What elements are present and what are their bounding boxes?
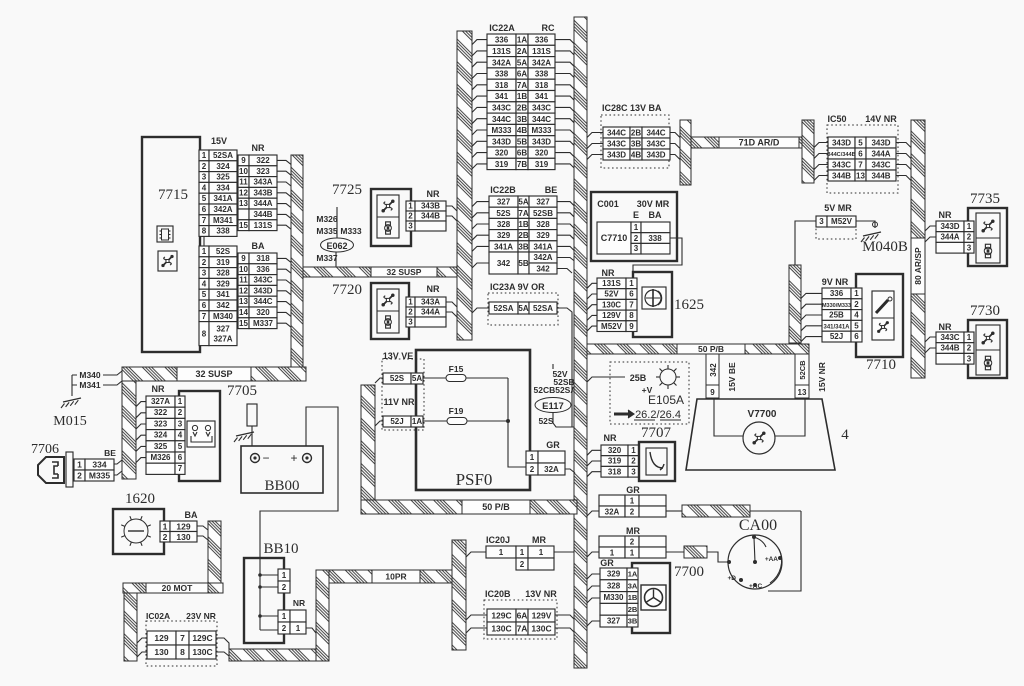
svg-text:341: 341	[216, 290, 230, 299]
svg-text:342A: 342A	[533, 253, 552, 262]
svg-text:343C: 343C	[940, 333, 959, 342]
svg-text:2: 2	[530, 465, 535, 474]
svg-text:10: 10	[239, 265, 248, 274]
svg-text:8: 8	[202, 227, 207, 236]
svg-text:2B: 2B	[518, 231, 528, 240]
connector 1620 table	[160, 521, 170, 532]
svg-text:M340: M340	[79, 370, 101, 380]
svg-text:20 MOT: 20 MOT	[162, 583, 194, 593]
connector MR table	[599, 536, 625, 547]
svg-text:1: 1	[163, 521, 168, 531]
svg-text:M337: M337	[253, 319, 274, 328]
svg-text:329: 329	[607, 570, 621, 579]
svg-text:M52V: M52V	[831, 217, 853, 226]
svg-text:E062: E062	[326, 241, 347, 251]
harness bar B7	[208, 521, 221, 583]
svg-text:2: 2	[282, 583, 287, 592]
junction dot F19	[506, 419, 510, 423]
wires 7705 to bar	[136, 402, 146, 407]
svg-text:NR: NR	[152, 384, 165, 394]
motor 7735 box	[968, 208, 1007, 266]
svg-text:328: 328	[607, 581, 621, 590]
svg-text:342A: 342A	[532, 58, 551, 67]
svg-text:3: 3	[408, 222, 413, 231]
svg-text:324: 324	[154, 431, 168, 440]
svg-text:2B: 2B	[631, 129, 641, 138]
svg-text:7700: 7700	[674, 564, 704, 580]
wires 7700	[587, 574, 600, 579]
svg-text:2: 2	[178, 408, 183, 417]
svg-text:6: 6	[178, 453, 183, 462]
svg-text:129: 129	[176, 521, 190, 531]
svg-text:6: 6	[202, 301, 207, 310]
relay 7710 box	[856, 274, 903, 357]
svg-text:319: 319	[535, 160, 549, 169]
svg-text:130: 130	[154, 647, 168, 657]
svg-text:4B: 4B	[517, 126, 527, 135]
wire IC23A left	[472, 308, 489, 313]
svg-text:4: 4	[841, 427, 849, 443]
svg-text:343B: 343B	[421, 202, 440, 211]
svg-text:2: 2	[630, 538, 635, 547]
svg-text:341A: 341A	[213, 194, 232, 203]
svg-text:IC22A: IC22A	[489, 23, 515, 33]
svg-text:5: 5	[178, 442, 183, 451]
svg-text:52SA: 52SA	[493, 304, 513, 313]
wires 1625 to bus	[587, 283, 597, 288]
connector 7706 table	[74, 459, 85, 470]
BB10 internal wire	[259, 513, 261, 630]
svg-text:52V: 52V	[604, 290, 619, 299]
BB10 pin cells lower	[278, 610, 290, 622]
svg-text:3: 3	[202, 173, 207, 182]
svg-text:343D: 343D	[940, 222, 959, 231]
svg-text:1: 1	[630, 549, 635, 558]
svg-text:23V NR: 23V NR	[186, 611, 216, 621]
PSF0 dotted box	[382, 359, 424, 430]
svg-text:NR: NR	[293, 598, 305, 608]
wires IC28C left	[587, 133, 603, 138]
connector 7710 table	[822, 288, 851, 299]
svg-text:26.2/26.4: 26.2/26.4	[635, 409, 681, 421]
svg-text:343B: 343B	[253, 188, 272, 197]
relay 7705 icon	[187, 421, 215, 447]
svg-text:IC50: IC50	[827, 114, 846, 124]
svg-text:M52V: M52V	[601, 322, 623, 331]
svg-text:5: 5	[202, 290, 207, 299]
svg-text:7706: 7706	[31, 442, 59, 457]
svg-text:M333: M333	[531, 126, 552, 135]
svg-text:NR: NR	[602, 268, 615, 278]
svg-text:32 SUSP: 32 SUSP	[387, 267, 422, 277]
svg-text:1: 1	[634, 223, 639, 232]
svg-text:2: 2	[408, 212, 413, 221]
svg-text:1: 1	[77, 460, 82, 470]
harness bar B1 vertical	[291, 155, 303, 367]
connector IC50 dotted box	[827, 125, 898, 193]
connector 7715 pins 9-15 lower table	[238, 253, 249, 264]
svg-text:1B: 1B	[628, 593, 638, 602]
svg-text:3B: 3B	[518, 242, 528, 251]
svg-text:334: 334	[216, 183, 230, 192]
svg-text:11: 11	[239, 178, 248, 187]
svg-text:1: 1	[282, 571, 287, 580]
wire M340 to bar	[103, 371, 122, 375]
svg-text:2: 2	[854, 300, 859, 309]
svg-text:329: 329	[497, 231, 511, 240]
relay 1625 box	[633, 272, 672, 337]
sensor 7707 box	[639, 442, 675, 481]
svg-text:1: 1	[520, 548, 525, 557]
svg-text:6: 6	[858, 150, 863, 159]
svg-text:342: 342	[709, 363, 718, 377]
svg-text:4B: 4B	[631, 151, 641, 160]
svg-text:M040B: M040B	[862, 239, 908, 255]
svg-text:1A: 1A	[517, 36, 527, 45]
motor 7730 box	[968, 320, 1007, 378]
svg-text:130: 130	[176, 532, 190, 542]
ground M040B	[863, 232, 881, 236]
7725 icon	[377, 195, 399, 238]
svg-text:1: 1	[539, 548, 544, 557]
svg-text:2B: 2B	[517, 103, 527, 112]
svg-text:327: 327	[607, 617, 621, 626]
connector IC20J table	[486, 546, 516, 558]
svg-text:7B: 7B	[517, 160, 527, 169]
svg-text:320: 320	[256, 308, 270, 317]
7715 icon motor	[158, 251, 177, 271]
svg-text:344A: 344A	[940, 233, 959, 242]
svg-text:344B: 344B	[871, 172, 890, 181]
harness H6 bottom	[229, 649, 316, 661]
connector 7720 table	[406, 297, 415, 307]
svg-text:344B: 344B	[940, 344, 959, 353]
svg-text:328: 328	[536, 220, 550, 229]
svg-text:1620: 1620	[125, 491, 155, 507]
svg-text:52SA: 52SA	[213, 151, 233, 160]
svg-text:2A: 2A	[517, 47, 527, 56]
svg-text:F15: F15	[449, 364, 464, 374]
harness bus B3 central	[574, 17, 587, 668]
7715 icon IC	[157, 226, 173, 242]
svg-text:338: 338	[216, 227, 230, 236]
connector 7735 table	[936, 221, 964, 232]
wire M52V to ground	[856, 221, 875, 228]
svg-text:E105A: E105A	[648, 393, 684, 407]
svg-text:M326: M326	[316, 214, 338, 224]
harness bar B11	[802, 120, 814, 183]
harness 10PR	[329, 570, 452, 583]
wire M341 to bar	[103, 381, 122, 385]
svg-text:343A: 343A	[421, 298, 440, 307]
svg-text:323: 323	[256, 167, 270, 176]
svg-text:10PR: 10PR	[385, 572, 406, 582]
svg-text:M330: M330	[603, 593, 624, 602]
svg-text:C7710: C7710	[601, 233, 628, 243]
motor 7725 box	[371, 189, 411, 246]
svg-text:GR: GR	[626, 485, 640, 495]
wires IC20B left	[466, 615, 487, 620]
battery plus wire loop	[260, 407, 338, 513]
connector tag 342	[706, 354, 719, 385]
svg-text:343C: 343C	[832, 161, 851, 170]
svg-text:80 AR/SP: 80 AR/SP	[913, 247, 923, 285]
svg-text:−: −	[262, 451, 269, 465]
svg-text:1: 1	[629, 279, 634, 288]
svg-text:129V: 129V	[532, 611, 552, 621]
svg-text:15V NR: 15V NR	[817, 362, 827, 392]
svg-text:M330/M333: M330/M333	[822, 303, 851, 309]
svg-text:3: 3	[634, 244, 639, 253]
svg-text:344C: 344C	[646, 129, 665, 138]
connector 7715 outline	[142, 137, 200, 352]
svg-text:341: 341	[535, 92, 549, 101]
svg-text:7: 7	[202, 216, 207, 225]
svg-text:319: 319	[216, 258, 230, 267]
wire IC23A to E117	[557, 308, 572, 427]
wire GR2 left	[587, 511, 599, 516]
harness bar B0 vertical	[122, 381, 136, 479]
wires 7730	[925, 337, 936, 342]
svg-text:129V: 129V	[602, 311, 621, 320]
svg-text:4: 4	[854, 311, 859, 320]
battery BB00	[241, 446, 323, 493]
svg-text:7: 7	[202, 312, 207, 321]
svg-text:1: 1	[967, 333, 972, 342]
svg-text:+AA: +AA	[765, 556, 778, 563]
svg-text:M337: M337	[316, 253, 338, 263]
wire 342 right	[557, 269, 572, 274]
svg-text:13: 13	[856, 172, 865, 181]
control unit C001 box	[591, 192, 677, 261]
svg-text:342: 342	[216, 301, 230, 310]
svg-text:25B: 25B	[829, 311, 844, 320]
svg-text:1: 1	[499, 548, 504, 557]
harness 50 P/B upper	[587, 344, 809, 354]
wire labels left	[72, 375, 77, 396]
connector 7715 pins 1-8 table	[199, 150, 209, 161]
svg-text:328: 328	[216, 269, 230, 278]
svg-text:BA: BA	[649, 210, 662, 220]
svg-text:327: 327	[216, 325, 230, 334]
svg-text:3: 3	[631, 467, 636, 476]
svg-text:334: 334	[92, 460, 106, 470]
svg-text:1: 1	[202, 247, 207, 256]
svg-text:32A: 32A	[544, 465, 559, 474]
svg-text:130C: 130C	[192, 647, 212, 657]
svg-text:328: 328	[497, 220, 511, 229]
svg-text:2: 2	[630, 508, 635, 517]
svg-text:131S: 131S	[492, 47, 511, 56]
svg-text:2: 2	[202, 258, 207, 267]
svg-text:52S: 52S	[538, 416, 553, 426]
connector 1625 table	[597, 278, 626, 289]
wires IC50 right	[896, 143, 911, 148]
svg-text:344C: 344C	[532, 115, 551, 124]
svg-text:1: 1	[854, 289, 859, 298]
svg-text:329: 329	[216, 279, 230, 288]
svg-text:3: 3	[202, 269, 207, 278]
svg-text:318: 318	[256, 254, 270, 263]
harness bus B4 80 AR/SP	[911, 120, 925, 238]
svg-text:E117: E117	[542, 401, 564, 412]
svg-text:C001: C001	[597, 199, 619, 209]
svg-text:MR: MR	[532, 535, 546, 545]
svg-text:130C: 130C	[531, 624, 551, 634]
svg-text:7A: 7A	[517, 81, 527, 90]
svg-text:6: 6	[854, 332, 859, 341]
svg-text:15: 15	[239, 319, 248, 328]
relay 7705 outline	[179, 391, 220, 481]
svg-text:320: 320	[535, 149, 549, 158]
connector IC02A dotted box	[146, 621, 217, 666]
connector 7700 table	[600, 568, 627, 580]
svg-text:343C: 343C	[492, 103, 511, 112]
svg-text:NR: NR	[427, 284, 440, 294]
wire M52V to B5	[795, 221, 816, 265]
svg-text:2: 2	[408, 308, 413, 317]
svg-text:344C/344B: 344C/344B	[827, 152, 855, 158]
fuse F19	[423, 420, 447, 422]
connector 7730 table	[936, 332, 964, 343]
connector 7706 symbol	[38, 457, 64, 483]
svg-text:GR: GR	[546, 440, 560, 450]
7735 icon	[976, 213, 1000, 263]
svg-text:338: 338	[535, 70, 549, 79]
svg-text:343D: 343D	[532, 137, 551, 146]
junction box BB10	[244, 558, 284, 643]
7730 icon	[976, 325, 1000, 375]
svg-text:7710: 7710	[866, 357, 896, 373]
svg-text:3B: 3B	[517, 115, 527, 124]
svg-text:1B: 1B	[517, 92, 527, 101]
wires 7706 to bar	[114, 460, 122, 464]
svg-text:3: 3	[967, 354, 972, 363]
connector 52J table	[383, 416, 411, 427]
svg-text:344A: 344A	[871, 150, 890, 159]
svg-text:319: 319	[495, 160, 509, 169]
svg-text:343C: 343C	[607, 140, 626, 149]
harness 20 MOT	[123, 583, 223, 593]
svg-text:327A: 327A	[151, 397, 170, 406]
svg-text:343D: 343D	[607, 151, 626, 160]
svg-text:NR: NR	[252, 143, 265, 153]
svg-text:1: 1	[408, 202, 413, 211]
connector IC20B dotted box	[484, 600, 557, 639]
svg-text:M333: M333	[491, 126, 512, 135]
svg-text:BE: BE	[104, 448, 116, 458]
svg-text:3: 3	[819, 217, 824, 226]
wire E117 to bus	[553, 413, 575, 428]
svg-text:338: 338	[495, 70, 509, 79]
svg-text:52S: 52S	[496, 209, 511, 218]
svg-text:NR: NR	[604, 433, 617, 443]
wires 1620 to bar	[197, 526, 208, 530]
1625 icon	[642, 287, 666, 309]
svg-text:318: 318	[495, 81, 509, 90]
svg-text:1: 1	[631, 446, 636, 455]
svg-text:7715: 7715	[158, 187, 188, 203]
7707 icon	[646, 448, 667, 475]
svg-text:7: 7	[629, 300, 634, 309]
svg-text:M333: M333	[340, 226, 362, 236]
svg-text:344A: 344A	[421, 308, 440, 317]
svg-text:324: 324	[216, 162, 230, 171]
wires 7710 to bar	[801, 293, 822, 298]
svg-text:318: 318	[608, 467, 622, 476]
svg-text:CA00: CA00	[739, 517, 777, 534]
svg-text:NR: NR	[427, 189, 440, 199]
svg-text:MR: MR	[626, 526, 640, 536]
svg-text:343D: 343D	[646, 151, 665, 160]
svg-text:1625: 1625	[674, 297, 704, 313]
svg-text:342: 342	[536, 265, 550, 274]
svg-text:320: 320	[608, 446, 622, 455]
svg-text:343C: 343C	[646, 140, 665, 149]
svg-text:13: 13	[798, 388, 807, 397]
svg-text:341: 341	[495, 92, 509, 101]
svg-text:2: 2	[202, 162, 207, 171]
wires 7735	[925, 226, 936, 231]
svg-text:M341: M341	[79, 380, 101, 390]
svg-text:325: 325	[216, 173, 230, 182]
V7700 motor circle	[743, 422, 775, 454]
svg-text:RC: RC	[542, 23, 555, 33]
svg-text:322: 322	[256, 156, 270, 165]
svg-text:M341: M341	[213, 216, 234, 225]
svg-text:GR: GR	[600, 558, 614, 568]
svg-text:344C: 344C	[607, 129, 626, 138]
7700 icon steering	[641, 585, 666, 610]
svg-text:15V: 15V	[211, 136, 227, 146]
svg-text:2: 2	[520, 560, 525, 569]
connector IC02A table	[147, 631, 176, 645]
svg-text:+: +	[290, 451, 297, 465]
motor 7720 box	[371, 283, 409, 339]
connector 7705 table	[146, 396, 175, 407]
svg-text:M015: M015	[53, 414, 86, 429]
svg-text:342A: 342A	[213, 205, 232, 214]
svg-text:329: 329	[536, 231, 550, 240]
connector 7707 table	[601, 445, 628, 456]
svg-text:50 P/B: 50 P/B	[698, 344, 724, 354]
svg-text:2: 2	[282, 624, 287, 633]
svg-text:1A: 1A	[412, 417, 422, 426]
wire bus to 25B	[587, 377, 625, 382]
svg-text:7707: 7707	[641, 425, 672, 441]
splice E117	[535, 398, 571, 413]
svg-text:336: 336	[495, 36, 509, 45]
svg-text:12: 12	[239, 286, 248, 295]
arrow 26.2/26.4	[614, 413, 628, 416]
svg-text:343D: 343D	[492, 137, 511, 146]
svg-text:129: 129	[154, 633, 168, 643]
harness 32 SUSP main	[122, 367, 306, 381]
connector IC23A dotted box	[488, 293, 558, 325]
svg-text:IC20J: IC20J	[486, 535, 510, 545]
wires 7715 lower tables to bar	[277, 258, 291, 262]
harness 71D AR/D	[691, 137, 802, 148]
svg-text:341A: 341A	[533, 242, 552, 251]
harness 50 P/B lower	[361, 500, 577, 514]
connector M52V tag	[816, 216, 827, 227]
svg-text:7720: 7720	[332, 282, 362, 298]
svg-text:52J: 52J	[830, 332, 843, 341]
fusebox PSF0 outline	[416, 350, 530, 490]
wire E062 to harness	[335, 252, 337, 267]
svg-text:131S: 131S	[254, 221, 273, 230]
svg-text:6: 6	[202, 205, 207, 214]
